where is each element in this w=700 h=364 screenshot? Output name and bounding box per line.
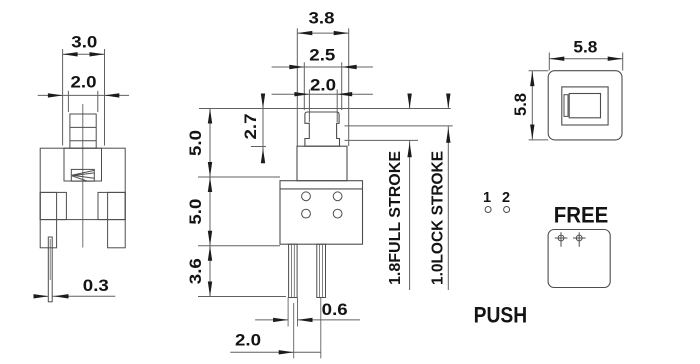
reference line at body top level — [198, 176, 280, 178]
arrowhead 2.7 bottom (outside below) — [261, 148, 265, 163]
arrowhead 1.8 stroke bottom — [407, 142, 411, 157]
front view right leg — [108, 192, 126, 247]
svg-text:1: 1 — [483, 190, 491, 206]
top view collar opening — [562, 87, 608, 125]
left pin inner line b — [293, 244, 295, 297]
dimension line 3.0 — [63, 53, 105, 55]
arrowhead 0.3 right — [54, 294, 69, 298]
top view plunger — [569, 94, 600, 118]
arrowhead 1.0 stroke bottom — [446, 128, 450, 143]
arrowhead 0.6 left — [273, 318, 288, 322]
arrowhead 5.8 left bottom — [530, 125, 534, 140]
dimension line 2.5 — [272, 66, 373, 68]
svg-text:1.0LOCK STROKE: 1.0LOCK STROKE — [430, 151, 447, 285]
arrowhead 2.5 right (outside) — [342, 65, 357, 69]
dimension line 5.8 top — [549, 58, 622, 60]
dimension line 2.0 — [38, 94, 129, 96]
arrowhead 3.6 top — [208, 246, 212, 261]
extension line 2.0 right — [336, 89, 338, 122]
svg-text:2.5: 2.5 — [309, 47, 335, 65]
front view left leg — [40, 192, 56, 247]
1.0 stroke dim lower shaft — [447, 126, 449, 290]
extension line 5.8 left bottom — [529, 139, 549, 141]
spring zigzag symbol — [72, 170, 95, 181]
svg-text:2.0: 2.0 — [71, 73, 97, 91]
right pin inner line b — [322, 244, 324, 297]
arrowhead 0.3 left — [34, 294, 49, 298]
arrowhead 1.0 stroke top — [446, 94, 450, 109]
extension line 3.8 right — [348, 28, 350, 146]
reference line: full stroke position — [345, 139, 419, 141]
svg-text:3.6: 3.6 — [187, 258, 205, 284]
arrowhead 1.8 stroke top — [407, 94, 411, 109]
crosshair terminal mark — [576, 235, 582, 241]
svg-text:PUSH: PUSH — [474, 302, 528, 327]
arrowhead 5.0 upper top — [208, 109, 212, 124]
svg-text:2.0: 2.0 — [235, 331, 261, 349]
arrowhead 2.0 right (outside) — [337, 92, 352, 96]
front view switch body — [40, 148, 125, 219]
pin 1 circle — [485, 207, 491, 213]
svg-text:3.0: 3.0 — [71, 34, 97, 52]
svg-text:0.3: 0.3 — [83, 277, 109, 295]
left pin inner line a — [290, 244, 292, 297]
side view left terminal pin — [289, 244, 298, 297]
svg-text:5.0: 5.0 — [187, 130, 205, 156]
extension line 2.5 left — [303, 62, 305, 110]
arrowhead 3.0 left — [63, 52, 78, 56]
extension line 3.0 right — [104, 49, 106, 146]
left pin center extension line — [293, 303, 295, 358]
side view switch body — [280, 181, 363, 245]
dimension line 2.0 — [272, 93, 373, 95]
extension line 2.5 right — [341, 62, 343, 110]
extension line 5.8 top left — [548, 53, 550, 71]
svg-text:5.0: 5.0 — [187, 199, 205, 225]
svg-text:0.6: 0.6 — [322, 301, 348, 319]
FREE state button outline — [548, 230, 610, 288]
front view left tab window — [40, 192, 66, 219]
front view plunger stem — [70, 114, 96, 148]
arrowhead 5.8 top right — [608, 57, 623, 61]
top view rounded body outline — [548, 71, 622, 140]
dimension line 0.6 right shaft — [298, 319, 361, 321]
arrowhead 2.0 right (outside) — [104, 93, 119, 97]
arrowhead 2.0 left (outside) — [294, 92, 309, 96]
front view spring box — [71, 169, 94, 181]
arrowhead 3.6 bottom — [208, 282, 212, 297]
reference line at pin bottom level — [198, 296, 286, 298]
front view collar (plunger guide) — [64, 148, 102, 181]
side view right terminal pin — [317, 244, 326, 297]
arrowhead 5.0 lower top — [208, 177, 212, 192]
extension line 2.0 right — [97, 91, 99, 112]
reference line: plunger free top position — [199, 108, 451, 110]
extension line 5.8 left top — [529, 70, 549, 72]
svg-text:5.8: 5.8 — [573, 38, 597, 56]
pin left edge extension line — [287, 298, 289, 327]
svg-text:FREE: FREE — [554, 202, 609, 227]
plunger stem segment line 1 — [70, 126, 96, 128]
reference line at base top level — [251, 146, 266, 148]
arrowhead 2.0 pin spacing — [279, 350, 294, 354]
arrowhead 5.8 left top — [530, 71, 534, 86]
dimension line 2.7 — [262, 96, 264, 160]
arrowhead 5.0 lower bottom — [208, 231, 212, 246]
extension line 3.8 left — [296, 28, 298, 146]
svg-text:3.8: 3.8 — [309, 10, 335, 28]
right pin inner line a — [319, 244, 321, 297]
side view base block — [297, 146, 347, 181]
arrowhead 2.5 left (outside) — [289, 65, 304, 69]
center line of front view — [82, 104, 84, 248]
thin pin inner line — [49, 239, 51, 280]
extension line 2.0 left — [67, 91, 69, 112]
arrowhead 3.8 right — [334, 31, 349, 35]
reference line: lock stroke position — [345, 125, 453, 127]
svg-text:5.8: 5.8 — [512, 93, 530, 116]
arrowhead 5.8 top left — [549, 57, 564, 61]
reference line at body bottom level — [198, 245, 280, 247]
arrowhead 2.7 top (outside above) — [261, 94, 265, 109]
dimension line 2.0 pin spacing — [230, 351, 321, 353]
arrowhead 2.0 left (outside) — [48, 93, 63, 97]
arrowhead 3.0 right — [90, 52, 105, 56]
extension line 3.0 left — [62, 49, 64, 146]
svg-text:1.8FULL STROKE: 1.8FULL STROKE — [387, 151, 404, 285]
dimension line 0.6 left shaft — [255, 319, 288, 321]
vertical dimension line 5.0/5.0/3.6 — [209, 109, 211, 297]
right pin center extension line — [320, 298, 322, 359]
arrowhead 5.0 upper bottom — [208, 162, 212, 177]
front view right tab window — [98, 192, 125, 219]
arrowhead 3.8 left — [297, 31, 312, 35]
extension line 5.8 top right — [622, 53, 624, 71]
1.8 stroke dim lower shaft — [409, 140, 411, 290]
top view keyway slot — [564, 95, 568, 117]
svg-text:2.0: 2.0 — [310, 76, 336, 94]
1.8 stroke dim upper shaft — [409, 95, 411, 109]
dimension line 5.8 left — [531, 71, 533, 139]
dimension line 0.3 left shaft — [34, 295, 49, 297]
front view thin terminal pin (0.3) — [48, 237, 52, 302]
arrowhead 0.6 right — [298, 318, 313, 322]
pin right edge extension line — [297, 298, 299, 327]
dimension line 3.8 — [297, 32, 348, 34]
side view body top plate line — [280, 188, 363, 190]
side view plunger (cap, neck, flange) — [305, 112, 340, 146]
extension line 2.0 left — [308, 89, 310, 122]
crosshair terminal mark — [558, 235, 564, 241]
pin 2 circle — [504, 207, 510, 213]
body rivet circles — [302, 192, 311, 201]
dimension line 0.3 right shaft — [52, 295, 115, 297]
1.0 stroke dim upper shaft — [447, 95, 449, 109]
svg-text:2.7: 2.7 — [242, 114, 260, 140]
svg-text:2: 2 — [502, 190, 510, 206]
plunger stem segment line 2 — [70, 140, 96, 142]
